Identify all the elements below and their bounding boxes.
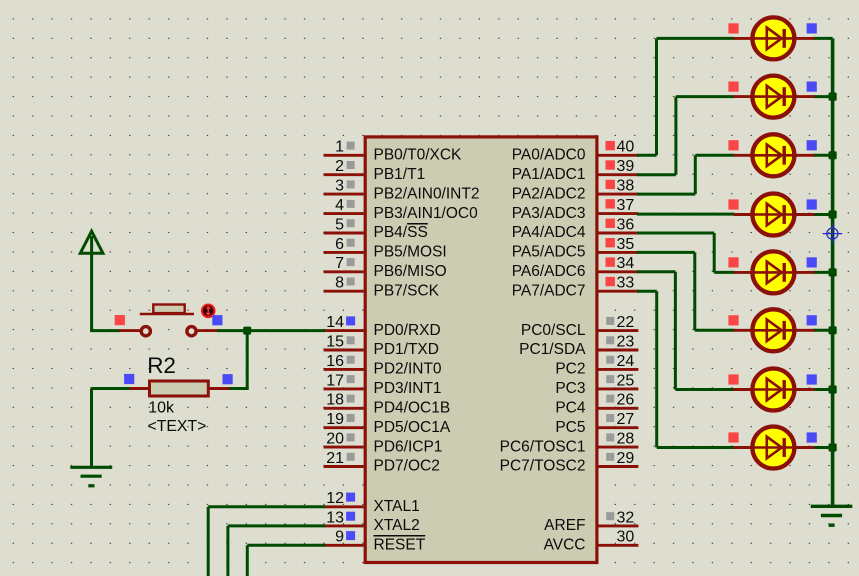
LED D3 [728, 134, 816, 176]
pin 21 (PD7/OC2) left side [324, 450, 440, 475]
pin 16 (PD2/INT0) left side [324, 353, 442, 378]
wire R2 right pin to junction riser [229, 387, 249, 390]
origin marker (blue crosshair cursor) [823, 224, 843, 244]
junction LED D2 / bus [829, 93, 837, 101]
svg-text:21: 21 [326, 450, 344, 467]
wire PA2 (pin 38) to LED D3 [637, 155, 735, 194]
svg-text:XTAL1: XTAL1 [374, 498, 420, 515]
svg-text:AREF: AREF [544, 517, 585, 534]
svg-text:39: 39 [617, 158, 635, 175]
svg-text:PC7/TOSC2: PC7/TOSC2 [500, 458, 586, 475]
junction LED D8 / bus [829, 443, 837, 451]
svg-text:24: 24 [617, 353, 635, 370]
svg-text:17: 17 [326, 372, 344, 389]
wire LED D3 to cathode bus [813, 154, 833, 157]
svg-text:PB6/MISO: PB6/MISO [374, 263, 447, 280]
pin 2 (PB1/T1) left side [324, 158, 426, 183]
svg-text:PB2/AIN0/INT2: PB2/AIN0/INT2 [374, 185, 480, 202]
svg-text:10k: 10k [148, 399, 175, 416]
svg-text:33: 33 [617, 275, 635, 292]
LED D4 [728, 194, 816, 236]
svg-text:3: 3 [335, 178, 344, 195]
cathode bus vertical wire [831, 38, 835, 505]
ground (right) [811, 506, 853, 525]
pin 33 (PA7/ADC7) right side [512, 275, 639, 300]
pin 5 (PB4/SS) left side [324, 216, 428, 241]
svg-text:9: 9 [335, 529, 344, 546]
pin 35 (PA5/ADC5) right side [512, 236, 639, 261]
junction node button/R2/PD0 [243, 327, 251, 335]
power symbol VCC [80, 231, 103, 330]
wire R2 left pin to ground [92, 389, 130, 467]
pin 34 (PA6/ADC6) right side [512, 255, 639, 280]
svg-text:PB3/AIN1/OC0: PB3/AIN1/OC0 [374, 205, 479, 222]
svg-text:AVCC: AVCC [544, 537, 586, 554]
svg-text:38: 38 [617, 178, 635, 195]
pin 19 (PD5/OC1A) left side [324, 411, 451, 436]
svg-text:19: 19 [326, 411, 344, 428]
wire PA1 (pin 39) to LED D2 [637, 97, 735, 175]
value 10k [148, 399, 175, 416]
svg-text:PC6/TOSC1: PC6/TOSC1 [500, 438, 586, 455]
svg-text:32: 32 [617, 509, 635, 526]
pin 12 (XTAL1) left side [324, 490, 420, 515]
pin 38 (PA2/ADC2) right side [512, 178, 639, 203]
svg-text:22: 22 [617, 314, 635, 331]
svg-text:PB0/T0/XCK: PB0/T0/XCK [374, 147, 463, 164]
resistor R2 [124, 374, 233, 396]
svg-text:PC3: PC3 [555, 380, 585, 397]
wire PA3 (pin 37) to LED D4 [637, 213, 735, 216]
svg-text:PC0/SCL: PC0/SCL [521, 322, 586, 339]
wire PA7 (pin 33) to LED D8 [637, 291, 735, 447]
svg-text:PD5/OC1A: PD5/OC1A [374, 419, 451, 436]
pin 40 (PA0/ADC0) right side [512, 139, 639, 164]
label R2 [147, 353, 176, 378]
LED D6 [728, 309, 816, 351]
IC U1 (ATmega16) body [365, 137, 597, 563]
svg-text:18: 18 [326, 392, 344, 409]
svg-text:PB1/T1: PB1/T1 [374, 166, 426, 183]
svg-text:PD1/TXD: PD1/TXD [374, 341, 439, 358]
pin 15 (PD1/TXD) left side [324, 333, 439, 358]
pin 37 (PA3/ADC3) right side [512, 197, 639, 222]
svg-text:1: 1 [335, 139, 344, 156]
wire XTAL2 (pin 13) to bottom edge [228, 526, 325, 576]
wire LED D4 to cathode bus [813, 213, 833, 216]
svg-text:PA7/ADC7: PA7/ADC7 [512, 282, 586, 299]
svg-text:PD4/OC1B: PD4/OC1B [374, 400, 451, 417]
svg-text:PD3/INT1: PD3/INT1 [374, 380, 442, 397]
svg-text:8: 8 [335, 275, 344, 292]
wire PA6 (pin 34) to LED D7 [637, 272, 735, 390]
pin 25 (PC3) right side [555, 372, 638, 397]
svg-text:PD7/OC2: PD7/OC2 [374, 458, 440, 475]
svg-text:26: 26 [617, 392, 635, 409]
junction LED D5 / bus [829, 268, 837, 276]
pin 22 (PC0/SCL) right side [521, 314, 639, 339]
svg-text:PD6/ICP1: PD6/ICP1 [374, 438, 443, 455]
pin 26 (PC4) right side [555, 392, 638, 417]
svg-text:<TEXT>: <TEXT> [148, 418, 207, 435]
pin 28 (PC6/TOSC1) right side [500, 431, 639, 456]
pin 14 (PD0/RXD) left side [324, 314, 441, 339]
svg-text:PA4/ADC4: PA4/ADC4 [512, 224, 586, 241]
svg-text:25: 25 [617, 372, 635, 389]
ground (left) [70, 467, 112, 486]
push button SW1 [115, 305, 223, 336]
svg-text:12: 12 [326, 490, 344, 507]
svg-text:XTAL2: XTAL2 [374, 517, 420, 534]
pin 17 (PD3/INT1) left side [324, 372, 442, 397]
svg-text:15: 15 [326, 333, 344, 350]
pin 18 (PD4/OC1B) left side [324, 392, 451, 417]
svg-text:27: 27 [617, 411, 635, 428]
wire PA5 (pin 35) to LED D6 [637, 252, 735, 330]
wire LED D6 to cathode bus [813, 329, 833, 332]
svg-text:PC5: PC5 [555, 419, 585, 436]
wire button to pin 14 (PD0/RXD) [217, 329, 325, 332]
LED D2 [728, 76, 816, 118]
label &lt;TEXT&gt; [148, 418, 207, 435]
pin 3 (PB2/AIN0/INT2) left side [324, 178, 480, 203]
pin 32 (AREF) right side [544, 509, 638, 534]
pin 6 (PB5/MOSI) left side [324, 236, 447, 261]
svg-text:PA1/ADC1: PA1/ADC1 [512, 166, 586, 183]
wire junction down to R2 [246, 331, 249, 389]
svg-text:29: 29 [617, 450, 635, 467]
svg-text:7: 7 [335, 255, 344, 272]
svg-text:PC4: PC4 [555, 400, 586, 417]
pin 30 (AVCC) right side [544, 529, 639, 554]
svg-text:PB4/SS: PB4/SS [374, 224, 428, 241]
svg-text:PA0/ADC0: PA0/ADC0 [512, 147, 586, 164]
svg-text:R2: R2 [147, 353, 176, 378]
svg-text:6: 6 [335, 236, 344, 253]
svg-text:PA5/ADC5: PA5/ADC5 [512, 244, 586, 261]
svg-text:16: 16 [326, 353, 344, 370]
svg-text:40: 40 [617, 139, 635, 156]
pin 20 (PD6/ICP1) left side [324, 431, 443, 456]
junction LED D6 / bus [829, 326, 837, 334]
wire PA4 (pin 36) to LED D5 [637, 233, 735, 272]
wire LED D1 to cathode bus (top corner) [813, 37, 833, 40]
wire VCC to button [90, 329, 120, 332]
svg-text:36: 36 [617, 216, 635, 233]
pin 13 (XTAL2) left side [324, 509, 420, 534]
wire PA0 (pin 40) to LED D1 [637, 38, 735, 155]
junction LED D3 / bus [829, 151, 837, 159]
pin 8 (PB7/SCK) left side [324, 275, 440, 300]
LED D1 [728, 17, 816, 59]
wire LED D5 to cathode bus [813, 271, 833, 274]
pin 29 (PC7/TOSC2) right side [500, 450, 639, 475]
svg-text:PB7/SCK: PB7/SCK [374, 282, 440, 299]
pin 27 (PC5) right side [555, 411, 638, 436]
pin 36 (PA4/ADC4) right side [512, 216, 639, 241]
pin 9 (RESET) left side [324, 529, 426, 554]
wire LED D2 to cathode bus [813, 95, 833, 98]
LED D5 [728, 251, 816, 293]
svg-text:13: 13 [326, 509, 344, 526]
pin 23 (PC1/SDA) right side [519, 333, 638, 358]
svg-text:28: 28 [617, 431, 635, 448]
pin 24 (PC2) right side [555, 353, 638, 378]
svg-text:34: 34 [617, 255, 635, 272]
svg-text:RESET: RESET [374, 537, 426, 554]
svg-text:37: 37 [617, 197, 635, 214]
svg-text:PD0/RXD: PD0/RXD [374, 322, 441, 339]
svg-text:PD2/INT0: PD2/INT0 [374, 361, 442, 378]
wire LED D7 to cathode bus [813, 388, 833, 391]
LED D8 [728, 427, 816, 469]
svg-text:PA6/ADC6: PA6/ADC6 [512, 263, 586, 280]
svg-text:PC2: PC2 [555, 361, 585, 378]
LED D7 [728, 369, 816, 411]
svg-text:2: 2 [335, 158, 344, 175]
wire RESET (pin 9) to bottom edge [247, 545, 325, 576]
pin 7 (PB6/MISO) left side [324, 255, 447, 280]
svg-text:PC1/SDA: PC1/SDA [519, 341, 586, 358]
svg-text:23: 23 [617, 333, 635, 350]
svg-text:20: 20 [326, 431, 344, 448]
svg-text:PB5/MOSI: PB5/MOSI [374, 244, 447, 261]
junction LED D7 / bus [829, 385, 837, 393]
pin 1 (PB0/T0/XCK) left side [324, 139, 462, 164]
svg-text:14: 14 [326, 314, 344, 331]
svg-text:4: 4 [335, 197, 344, 214]
pin 39 (PA1/ADC1) right side [512, 158, 639, 183]
wire LED D8 to cathode bus [813, 446, 833, 449]
wire XTAL1 (pin 12) to bottom edge [208, 507, 325, 576]
svg-text:PA3/ADC3: PA3/ADC3 [512, 205, 586, 222]
svg-text:30: 30 [617, 529, 635, 546]
junction LED D4 / bus [829, 210, 837, 218]
svg-text:PA2/ADC2: PA2/ADC2 [512, 185, 586, 202]
svg-text:5: 5 [335, 216, 344, 233]
pin 4 (PB3/AIN1/OC0) left side [324, 197, 479, 222]
svg-text:35: 35 [617, 236, 635, 253]
